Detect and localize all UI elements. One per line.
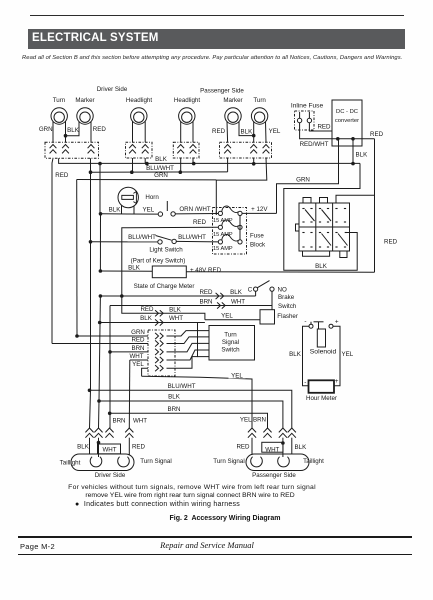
lamp driver marker	[75, 97, 94, 124]
wire BLU/WHT switch to fuse 3 and bus	[176, 234, 218, 242]
svg-text:BLK: BLK	[77, 444, 90, 451]
wire +48V RED to battery	[186, 267, 374, 274]
fuse F3 15 AMP	[218, 235, 242, 244]
wire horn leads	[122, 206, 135, 214]
lamp passenger marker	[223, 97, 242, 124]
junction horn row	[99, 212, 103, 216]
svg-text:15 AMP: 15 AMP	[213, 218, 233, 224]
svg-text:GRN: GRN	[154, 172, 168, 179]
node Passenger Side label	[200, 88, 244, 95]
fuse F2 15 AMP	[218, 220, 242, 229]
wire +12V fuse output	[240, 206, 277, 240]
lamp driver turn signal	[51, 97, 67, 124]
fuse F1 15 AMP	[218, 206, 242, 215]
svg-text:Flasher: Flasher	[277, 313, 298, 320]
wire YEL solenoid to hour meter	[333, 326, 354, 386]
svg-text:(Part of Key Switch): (Part of Key Switch)	[131, 258, 186, 265]
svg-text:GRN: GRN	[131, 329, 145, 336]
wire YEL flasher feed	[205, 312, 260, 320]
svg-text:Block: Block	[250, 242, 266, 249]
svg-text:State of Charge Meter: State of Charge Meter	[134, 283, 195, 290]
svg-text:Turn: Turn	[253, 97, 266, 104]
svg-text:+: +	[335, 378, 339, 385]
svg-text:YEL: YEL	[269, 128, 281, 135]
horn button switch S1	[158, 201, 175, 216]
svg-text:BRN: BRN	[131, 345, 144, 352]
wire RED driver marker to harness	[55, 158, 90, 179]
svg-text:BLU/WHT: BLU/WHT	[168, 383, 196, 390]
butt connector flasher RED	[155, 310, 163, 316]
svg-text:RED: RED	[132, 444, 146, 451]
svg-text:GRN: GRN	[39, 126, 53, 133]
svg-text:BLK: BLK	[315, 263, 328, 270]
svg-text:Switch: Switch	[221, 347, 240, 354]
driver taillight	[60, 454, 172, 479]
junction BRN taps	[108, 350, 112, 415]
lamp passenger turn signal	[251, 97, 267, 124]
wire BRN row to turn signal switch	[110, 345, 148, 352]
svg-text:Headlight: Headlight	[174, 97, 200, 104]
svg-text:Turn Signal: Turn Signal	[213, 458, 244, 465]
svg-text:NO: NO	[278, 286, 287, 293]
svg-text:BLK: BLK	[230, 289, 243, 296]
brake switch S2	[248, 281, 287, 296]
wire BLK meter feed	[100, 265, 152, 272]
svg-text:RED: RED	[193, 219, 207, 226]
wire GRN bus drop to turn signal switch	[76, 180, 78, 337]
connector block driver turn and marker	[45, 142, 99, 158]
turn signal switch	[209, 326, 255, 361]
wire RED brake feed	[100, 289, 255, 296]
passenger taillight	[213, 454, 324, 479]
junction brake feed	[99, 294, 124, 298]
wire RED/WHT inline fuse	[300, 123, 338, 148]
svg-text:-: -	[304, 318, 306, 325]
svg-text:Marker: Marker	[223, 97, 242, 104]
butt connector brake WHT	[217, 302, 225, 308]
battery pack BLK label	[315, 263, 328, 270]
wire GRN right segment to DC-DC	[277, 139, 339, 214]
svg-text:YEL: YEL	[142, 206, 154, 213]
wire RED row to turn signal switch	[52, 337, 148, 344]
passenger WHT bulb box	[262, 442, 283, 453]
svg-text:YEL: YEL	[132, 361, 144, 368]
passenger rear wires below connectors	[252, 438, 292, 457]
inline fuse	[291, 103, 324, 131]
svg-text:RED: RED	[55, 172, 69, 179]
svg-text:WHT: WHT	[129, 353, 143, 360]
wire RED passenger marker to harness	[227, 158, 229, 172]
svg-text:WHT: WHT	[265, 446, 279, 453]
junction light switch feed	[89, 240, 93, 244]
wire horn row BLK-YEL	[101, 206, 159, 214]
solenoid	[304, 318, 339, 356]
svg-text:RED: RED	[384, 239, 398, 246]
svg-text:BLK: BLK	[295, 444, 308, 451]
butt connector flasher BLK	[155, 319, 163, 325]
svg-text:BLU/WHT: BLU/WHT	[178, 234, 206, 241]
svg-text:RED: RED	[140, 306, 154, 313]
svg-text:BLU/WHT: BLU/WHT	[128, 234, 156, 241]
svg-text:15 AMP: 15 AMP	[213, 246, 233, 252]
wire RED driver turn harness drop	[52, 158, 53, 343]
junction meter feed	[99, 269, 103, 273]
svg-text:BLK: BLK	[241, 128, 254, 135]
svg-text:Signal: Signal	[222, 339, 239, 346]
svg-text:BLK: BLK	[169, 306, 182, 313]
wires connector to turn signal switch	[167, 331, 210, 360]
wire ORN/WHT to fuse 1	[175, 206, 218, 214]
wire BLK bus to battery negative	[284, 163, 360, 270]
flasher	[260, 310, 298, 324]
svg-text:WHT: WHT	[133, 418, 147, 425]
svg-text:Turn: Turn	[224, 331, 237, 338]
svg-text:BLK: BLK	[109, 206, 122, 213]
svg-text:ORN /WHT: ORN /WHT	[179, 206, 210, 213]
junction BLU/WHT bus	[89, 170, 182, 174]
wire BLK solenoid to hour meter	[289, 326, 309, 386]
svg-text:BLK: BLK	[155, 156, 168, 163]
svg-text:DC - DC: DC - DC	[336, 109, 358, 115]
svg-text:Passenger Side: Passenger Side	[200, 88, 244, 95]
svg-text:RED: RED	[131, 337, 145, 344]
wire RED passenger marker left lead	[212, 122, 228, 143]
lamp passenger headlight	[174, 97, 200, 124]
wire BLK bus	[59, 156, 360, 163]
wire BLK vertical lower	[99, 296, 101, 428]
wire GRN drop to fuse row	[215, 180, 217, 214]
junction GRN row	[75, 334, 79, 338]
svg-text:Headlight: Headlight	[126, 97, 152, 104]
wire GRN bus	[77, 172, 217, 180]
svg-text:Light Switch: Light Switch	[149, 247, 183, 254]
svg-text:RED: RED	[370, 131, 384, 138]
svg-text:Marker: Marker	[75, 97, 94, 104]
wire BLU/WHT lower bus	[90, 383, 292, 428]
svg-text:YEL: YEL	[221, 312, 233, 319]
wire BLK flasher branch	[100, 315, 205, 323]
junction driver WHT	[97, 441, 101, 445]
svg-text:+ 12V: + 12V	[251, 206, 268, 213]
light switch (part of key switch)	[131, 236, 186, 265]
svg-text:BLU/WHT: BLU/WHT	[146, 165, 174, 172]
wire WHT rear turn drop	[128, 360, 131, 428]
svg-text:BRN: BRN	[167, 406, 180, 413]
wire BLK vertical harness	[99, 164, 102, 271]
connector block passenger marker and turn	[220, 142, 272, 158]
dc-dc converter U1	[332, 100, 362, 146]
junction driver BLK	[64, 134, 68, 138]
svg-text:Switch: Switch	[278, 303, 297, 310]
junction BLU/WHT lower	[88, 389, 92, 393]
svg-text:BLK: BLK	[356, 152, 369, 159]
battery pack 6 batteries	[296, 198, 350, 258]
svg-text:YEL: YEL	[240, 417, 252, 424]
svg-text:BRN: BRN	[112, 418, 125, 425]
svg-text:YEL: YEL	[231, 373, 243, 380]
wire YEL passenger turn right lead	[266, 122, 281, 143]
junction GRN tap on fuse row	[215, 212, 217, 216]
svg-text:+: +	[335, 318, 339, 325]
junction BLK bus taps	[98, 162, 355, 166]
wire BLU/WHT light switch feed	[91, 234, 158, 242]
wire driver turn right lead	[65, 122, 67, 136]
wire RED flasher branch	[122, 296, 205, 320]
wire YEL lower bus	[142, 372, 252, 428]
wire BLK DC-DC to bus	[353, 139, 368, 164]
driver rear connectors	[85, 418, 147, 438]
wire NO drop to flasher	[271, 306, 273, 310]
svg-text:BLK: BLK	[168, 394, 181, 401]
wire BLK lower bus	[99, 394, 283, 428]
wire passenger turn left lead	[253, 122, 255, 136]
svg-text:RED/WHT: RED/WHT	[300, 141, 329, 148]
svg-text:Driver Side: Driver Side	[97, 86, 128, 93]
fuse block label	[250, 233, 266, 249]
state of charge meter	[134, 266, 195, 290]
svg-text:Passenger Side: Passenger Side	[252, 472, 296, 479]
svg-text:Inline Fuse: Inline Fuse	[291, 103, 324, 110]
wire driver headlight leads	[133, 122, 146, 143]
svg-text:Fuse: Fuse	[250, 233, 264, 240]
wire GRN row to turn signal switch	[77, 329, 148, 336]
turn signal connector block	[148, 330, 175, 376]
wire BLK passenger drop	[253, 158, 255, 164]
svg-text:Driver Side: Driver Side	[95, 472, 126, 479]
fuse block	[213, 208, 247, 255]
wire headlight drops	[133, 158, 194, 172]
svg-text:-: -	[304, 379, 306, 386]
svg-text:Turn: Turn	[53, 97, 66, 104]
svg-text:Brake: Brake	[278, 294, 295, 301]
wire BLK driver marker left lead	[66, 122, 80, 143]
junction DC-DC outputs	[336, 137, 355, 141]
brake switch label	[278, 294, 297, 310]
driver rear wires below connectors	[90, 438, 130, 457]
svg-text:Hour Meter: Hour Meter	[306, 395, 337, 402]
svg-text:BRN: BRN	[199, 299, 212, 306]
svg-text:BRN: BRN	[253, 417, 266, 424]
junction passenger BLK	[252, 134, 256, 138]
wire GRN driver turn left lead	[39, 122, 53, 143]
svg-text:RED: RED	[317, 124, 331, 131]
wire YEL row corner	[132, 361, 148, 376]
wire YEL flasher to turn signal switch	[167, 323, 210, 369]
wire RED DC-DC output	[338, 131, 384, 139]
junction BLK lower	[97, 399, 101, 403]
svg-text:YEL: YEL	[342, 351, 354, 358]
svg-text:GRN: GRN	[296, 177, 310, 184]
connector block driver headlight	[126, 142, 153, 158]
svg-text:BLK: BLK	[289, 351, 302, 358]
svg-text:BLK: BLK	[67, 127, 80, 134]
svg-text:BLK: BLK	[128, 265, 141, 272]
svg-text:BLK: BLK	[140, 315, 153, 322]
svg-text:C: C	[248, 286, 253, 293]
wire BLU/WHT vertical	[90, 172, 91, 428]
wire BLU/WHT bus	[91, 165, 228, 172]
svg-text:Turn Signal: Turn Signal	[140, 458, 171, 465]
junction flasher BLK	[98, 321, 102, 325]
wire RED fuse 2 feed	[122, 219, 219, 296]
svg-text:Solenoid: Solenoid	[310, 349, 337, 356]
svg-text:WHT: WHT	[231, 299, 245, 306]
svg-text:RED: RED	[212, 128, 226, 135]
svg-text:WHT: WHT	[102, 447, 116, 454]
svg-text:+ 48V RED: + 48V RED	[190, 267, 222, 274]
wire RED main riser	[374, 139, 376, 272]
svg-text:RED: RED	[236, 444, 250, 451]
svg-text:converter: converter	[335, 118, 359, 124]
wire YEL passenger turn drop	[216, 158, 266, 180]
horn	[118, 187, 159, 207]
svg-text:WHT: WHT	[169, 315, 183, 322]
svg-text:RED: RED	[93, 126, 107, 133]
wire WHT row to turn signal switch	[129, 353, 148, 360]
wire RED driver marker right lead	[91, 122, 106, 143]
lamp driver headlight	[126, 97, 152, 124]
junction passenger WHT	[281, 441, 285, 445]
connector block passenger headlight	[173, 142, 199, 158]
passenger rear labels	[236, 444, 307, 451]
svg-text:Horn: Horn	[145, 194, 159, 201]
hour meter	[304, 378, 339, 402]
svg-text:Taillight: Taillight	[60, 460, 81, 467]
driver WHT bulb box	[98, 444, 121, 454]
wire WHT brake switch NO output	[110, 291, 272, 305]
wire BRN vertical	[109, 306, 111, 429]
node Driver Side label	[97, 86, 128, 93]
wire BRN lower bus	[110, 406, 268, 428]
wire RED inline fuse to DC-DC	[309, 123, 332, 131]
svg-text:Taillight: Taillight	[303, 458, 324, 465]
wire RED battery positive	[336, 195, 398, 245]
butt connector brake RED	[216, 293, 224, 299]
svg-text:RED: RED	[199, 289, 213, 296]
passenger rear connectors	[240, 417, 296, 438]
wire passenger headlight leads	[181, 122, 193, 143]
wire BLK passenger marker right lead	[239, 122, 254, 143]
driver rear labels	[77, 444, 145, 451]
